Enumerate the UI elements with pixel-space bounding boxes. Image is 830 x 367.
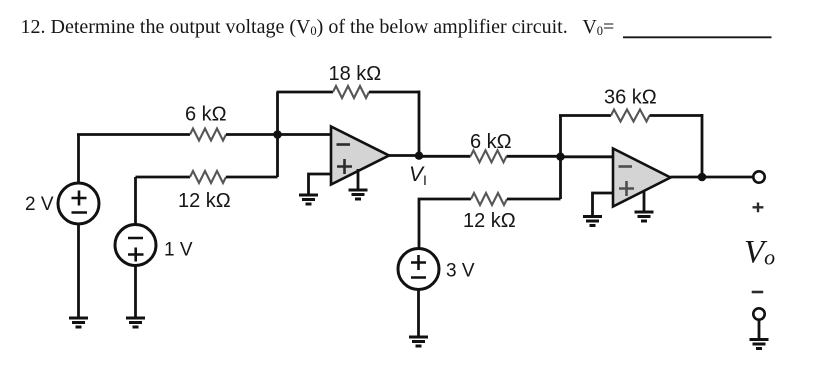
wire op-amp U2 bottom to ground bbox=[643, 191, 646, 213]
wire op-amp U2 + input to ground bbox=[593, 193, 614, 217]
node A junction dot bbox=[273, 130, 282, 139]
svg-text:12. Determine the output volta: 12. Determine the output voltage (V0) of… bbox=[21, 16, 615, 38]
svg-text:18 kΩ: 18 kΩ bbox=[329, 63, 382, 85]
resistor R1 6 kOhm (stage 1 top) bbox=[190, 129, 226, 141]
wire 36k feedback right vertical to output node bbox=[701, 114, 704, 177]
op-amp U2 plus input mark bbox=[619, 181, 634, 196]
wire op-amp U2 output bbox=[671, 176, 703, 179]
svg-text:6 kΩ: 6 kΩ bbox=[185, 104, 227, 126]
wire 2V top to 6k row bbox=[77, 135, 80, 184]
wire 6k row right segment to op-amp bbox=[226, 133, 332, 136]
svg-text:12 kΩ: 12 kΩ bbox=[463, 210, 516, 232]
ground (U1 + input) bbox=[299, 195, 318, 204]
op-amp U1 triangle bbox=[331, 127, 389, 185]
svg-text:2 V: 2 V bbox=[25, 194, 54, 215]
ground (output) bbox=[750, 340, 769, 349]
wire 6k row left segment bbox=[77, 133, 190, 136]
wire 12k (stage2) right segment bbox=[507, 198, 561, 201]
op-amp U2 triangle bbox=[613, 149, 671, 207]
source V1 2V circle bbox=[58, 183, 99, 224]
wire 12k row right segment bbox=[226, 176, 278, 179]
node B junction dot bbox=[556, 153, 564, 161]
node VI junction dot bbox=[415, 152, 423, 160]
wire 2V bottom to ground bbox=[77, 224, 80, 319]
op-amp U1 minus input mark bbox=[337, 143, 351, 146]
svg-text:3 V: 3 V bbox=[446, 261, 475, 282]
plus sign (output polarity) bbox=[753, 203, 764, 213]
ground (U2 + input) bbox=[583, 217, 602, 226]
wire 36k feedback top right segment bbox=[650, 114, 703, 117]
wire op-amp U1 output bbox=[389, 154, 419, 157]
op-amp U1 plus input mark bbox=[337, 159, 352, 174]
ground (2V source) bbox=[69, 318, 88, 327]
wire bottom terminal to ground bbox=[758, 320, 761, 340]
wire output node to terminal bbox=[702, 176, 753, 179]
wire 12k (stage2) left corner + riser to 3V bbox=[419, 199, 471, 249]
wire node B to op-amp U2 minus input bbox=[561, 155, 615, 158]
resistor R2 12 kOhm (stage 1 lower) bbox=[190, 171, 226, 183]
wire 6k (stage2) right segment bbox=[507, 155, 561, 158]
op-amp U2 minus input mark bbox=[619, 165, 633, 168]
wire 1V bottom to ground bbox=[134, 266, 137, 319]
wire op-amp U1 + input to ground bbox=[309, 174, 332, 195]
ground (U1 bottom) bbox=[349, 190, 368, 199]
wire 3V bottom to ground bbox=[417, 290, 420, 338]
svg-text:1 V: 1 V bbox=[164, 240, 193, 261]
resistor R5 12 kOhm (stage 2) bbox=[471, 193, 507, 205]
minus sign (output polarity) bbox=[752, 291, 764, 294]
svg-text:6 kΩ: 6 kΩ bbox=[470, 131, 512, 153]
wire node A vertical (feedback top to 12k row) bbox=[276, 92, 279, 177]
wire 18k feedback right vertical to output node bbox=[418, 91, 421, 156]
svg-text:12 kΩ: 12 kΩ bbox=[178, 190, 231, 212]
resistor R3 18 kOhm feedback bbox=[333, 86, 369, 98]
wire 36k feedback top left segment bbox=[559, 114, 611, 117]
source V3 3V circle bbox=[398, 249, 439, 290]
resistor R6 36 kOhm feedback bbox=[611, 110, 650, 122]
wire 12k row left segment bbox=[136, 176, 191, 179]
svg-text:36 kΩ: 36 kΩ bbox=[604, 87, 657, 109]
wire 18k feedback top left segment bbox=[277, 91, 334, 94]
output terminal circle (-) bbox=[753, 308, 764, 319]
answer blank underline bbox=[623, 36, 772, 38]
wire 1V top riser bbox=[134, 177, 137, 225]
ground (1V source) bbox=[126, 318, 145, 327]
wire op-amp U1 bottom to ground bbox=[357, 169, 360, 190]
wire 6k (stage2) left segment bbox=[419, 155, 471, 158]
wire node B vertical (36k feedback down to 12k row) bbox=[559, 116, 562, 200]
node output junction dot bbox=[698, 173, 707, 182]
ground (U2 bottom) bbox=[635, 212, 654, 221]
ground (3V source) bbox=[409, 337, 428, 346]
wire 18k feedback top right segment bbox=[369, 91, 419, 94]
resistor R4 6 kOhm (stage 2) bbox=[471, 150, 507, 162]
source V2 1V circle bbox=[115, 225, 156, 266]
output terminal circle (+) bbox=[753, 171, 764, 182]
